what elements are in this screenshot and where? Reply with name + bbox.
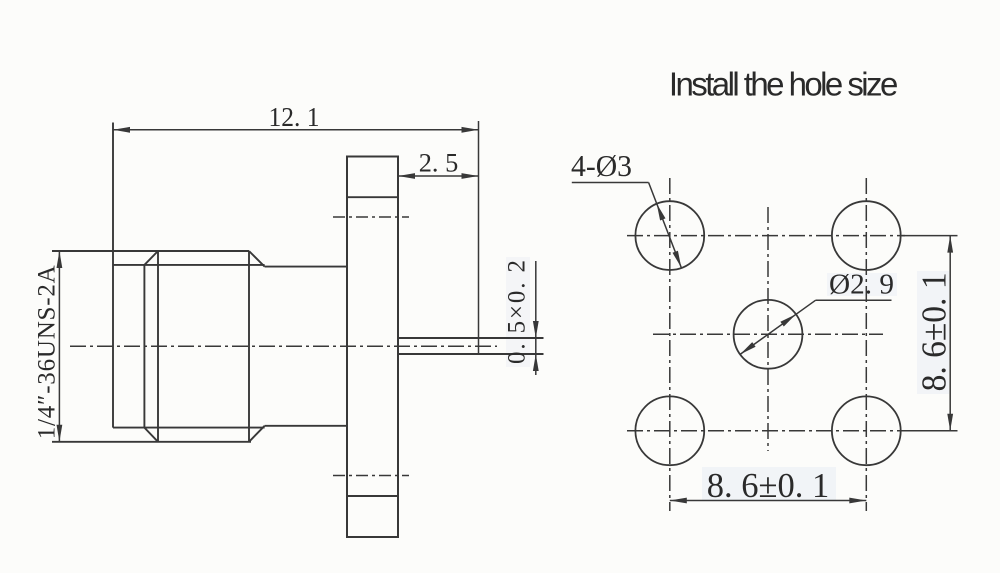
svg-text:0. 5×0. 2: 0. 5×0. 2: [504, 260, 531, 364]
row centerline middle: [653, 333, 883, 335]
dim 0.5 arrow up: [533, 354, 539, 371]
dim 8.6 bottom line: [670, 500, 867, 502]
svg-text:4-Ø3: 4-Ø3: [571, 148, 632, 183]
flange hole centerline bottom: [333, 475, 409, 477]
column centerline right: [865, 178, 867, 511]
thread root bottom line: [113, 427, 265, 429]
row centerline bottom: [627, 430, 905, 432]
svg-text:Ø2. 9: Ø2. 9: [829, 270, 894, 301]
thread chamfer vertical left inner: [143, 265, 145, 428]
label O2.9 arrow upper: [780, 314, 796, 326]
tint behind O2.9 text: [827, 273, 897, 296]
chamfer slant top-left: [144, 251, 158, 265]
chamfer slant top-right: [249, 251, 265, 267]
thread chamfer vertical left outer: [157, 251, 159, 442]
dim 0.5 ext top: [495, 337, 544, 339]
hole top-left: [635, 201, 704, 270]
dim thread arrow bottom: [57, 425, 63, 442]
svg-text:1/4″-36UNS-2A: 1/4″-36UNS-2A: [34, 265, 61, 439]
label O2.9 leader slant: [740, 300, 815, 354]
dim 0.5 ext bottom: [495, 353, 544, 355]
label 4-O3 arrow upper: [657, 204, 666, 221]
column centerline left: [669, 178, 671, 511]
thread end vertical: [248, 251, 250, 442]
main centerline: [70, 345, 497, 347]
dim 8.6 right arrow bottom: [947, 414, 953, 431]
hole bottom-right: [832, 396, 901, 465]
pin bottom line: [398, 353, 544, 355]
flange hole centerline top: [333, 216, 409, 218]
dim 8.6 right ext top: [902, 235, 958, 237]
hole top-right: [832, 201, 901, 270]
svg-text:2. 5: 2. 5: [419, 148, 459, 177]
thread crest bottom line: [52, 441, 251, 443]
dim 2.5 line: [398, 175, 479, 177]
dim 8.6 bottom arrow right: [849, 498, 866, 504]
svg-text:12. 1: 12. 1: [269, 102, 320, 132]
tint behind bottom 8.6 text: [702, 467, 836, 500]
column centerline middle: [767, 207, 769, 451]
pin top line: [398, 337, 544, 339]
dim 0.5 arrow down: [533, 321, 539, 338]
row centerline top: [627, 235, 905, 237]
tint behind right 8.6 text: [917, 271, 949, 394]
dim thread arrow top: [57, 251, 63, 268]
body left face: [112, 123, 114, 428]
dim 8.6 right line: [949, 236, 951, 431]
tint behind 0.5x0.2 text: [506, 257, 530, 367]
thread crest top line: [52, 250, 249, 252]
svg-text:Install the hole size: Install the hole size: [669, 66, 899, 103]
dim 2.5 arrow left: [398, 173, 415, 179]
svg-text:8. 6±0. 1: 8. 6±0. 1: [707, 466, 830, 505]
dim 12.1 arrow right: [462, 127, 479, 133]
neck top line: [265, 266, 347, 268]
label O2.9 underline: [816, 299, 892, 301]
neck bottom line: [265, 425, 347, 427]
chamfer slant bottom-right: [249, 426, 265, 442]
dim 2.5 arrow right: [462, 173, 479, 179]
dim 12.1 arrow left: [113, 127, 130, 133]
thread root top line: [113, 264, 265, 266]
label O2.9 arrow lower: [740, 342, 756, 354]
label 4-O3 arrow lower: [673, 251, 682, 268]
flange inner line bottom: [347, 495, 398, 497]
dim 8.6 right arrow top: [947, 236, 953, 253]
dim 8.6 right ext bottom: [899, 430, 958, 432]
flange inner line top: [347, 196, 398, 198]
dim 12.1 extension line right: [478, 121, 480, 354]
hole center: [734, 300, 803, 369]
chamfer slant bottom-left: [144, 428, 158, 442]
flange outline: [347, 157, 398, 538]
label 4-O3 underline: [572, 182, 649, 184]
svg-text:8. 6±0. 1: 8. 6±0. 1: [915, 272, 954, 391]
dim thread line: [58, 251, 60, 442]
dim 0.5 line: [535, 261, 537, 375]
dim 12.1 line: [113, 129, 479, 131]
label 4-O3 leader slant: [649, 183, 682, 268]
dim 8.6 bottom arrow left: [670, 498, 687, 504]
hole bottom-left: [635, 396, 704, 465]
